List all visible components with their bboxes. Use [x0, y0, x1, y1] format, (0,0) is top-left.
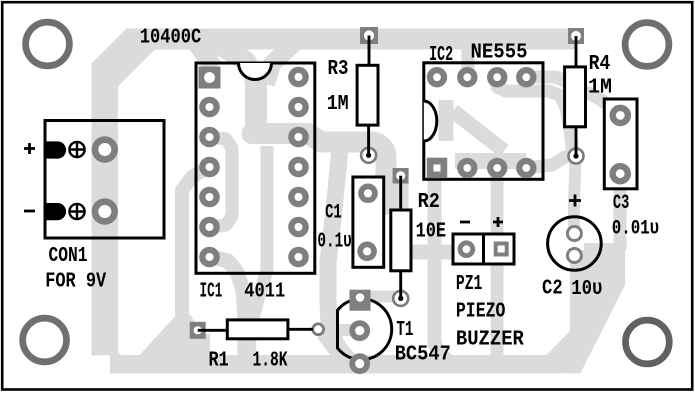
- svg-text:CON1: CON1: [49, 245, 88, 268]
- svg-text:R2: R2: [418, 190, 440, 214]
- svg-text:C3: C3: [613, 192, 630, 215]
- svg-text:C1: C1: [325, 202, 342, 225]
- svg-text:0.1υ: 0.1υ: [317, 231, 351, 254]
- svg-text:10400C: 10400C: [140, 26, 202, 49]
- svg-text:0.01υ: 0.01υ: [612, 217, 660, 240]
- svg-text:R3: R3: [328, 58, 349, 81]
- svg-text:PIEZO: PIEZO: [456, 301, 506, 324]
- svg-text:1M: 1M: [588, 77, 612, 100]
- svg-text:BC547: BC547: [395, 344, 451, 367]
- svg-text:PZ1: PZ1: [456, 273, 483, 296]
- svg-text:C2: C2: [542, 278, 563, 301]
- svg-text:4011: 4011: [244, 280, 285, 304]
- svg-text:IC1: IC1: [200, 280, 223, 304]
- svg-text:T1: T1: [396, 319, 413, 342]
- svg-text:IC2: IC2: [429, 44, 453, 67]
- svg-text:10E: 10E: [416, 219, 447, 243]
- svg-text:1.8K: 1.8K: [253, 350, 288, 373]
- svg-text:BUZZER: BUZZER: [456, 328, 524, 351]
- svg-text:FOR 9V: FOR 9V: [45, 271, 106, 294]
- svg-text:10υ: 10υ: [571, 278, 602, 301]
- svg-text:R1: R1: [209, 350, 229, 373]
- svg-text:1M: 1M: [327, 93, 349, 116]
- svg-text:R4: R4: [589, 53, 611, 76]
- svg-text:NE555: NE555: [471, 42, 528, 65]
